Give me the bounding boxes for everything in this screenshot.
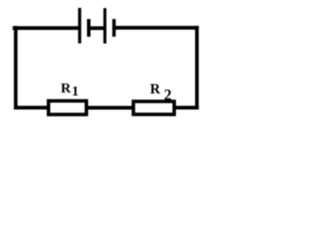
wire: battery inter-cell link [90, 26, 105, 30]
svg-text:1: 1 [72, 84, 79, 99]
svg-text:R: R [61, 82, 72, 97]
wire: top-right horizontal segment (battery to corner) [115, 26, 199, 30]
battery B1 (two cells) [78, 8, 116, 44]
wire: left vertical side of loop [14, 26, 18, 110]
wire: bottom-middle segment (R1 to R2) [86, 106, 134, 110]
svg-text:R: R [150, 82, 161, 98]
wire: bottom-right segment (R2 to corner) [174, 106, 199, 110]
resistor R1 (box symbol) [49, 101, 87, 115]
resistor R2 (box symbol) [133, 101, 174, 114]
wire: right vertical side of loop [195, 26, 199, 110]
svg-text:2: 2 [164, 87, 172, 104]
battery B1 short plate, cell 1 [87, 19, 91, 37]
label R2 [150, 82, 172, 104]
wire: bottom-left segment (corner to R1) [14, 106, 50, 110]
wire: top-left horizontal segment (corner to battery) [13, 26, 79, 30]
battery B1 long plate, cell 2 [103, 8, 106, 43]
battery B1 long plate, cell 1 [78, 8, 81, 44]
battery B1 short plate, cell 2 [112, 19, 115, 37]
label R1 [61, 82, 79, 100]
